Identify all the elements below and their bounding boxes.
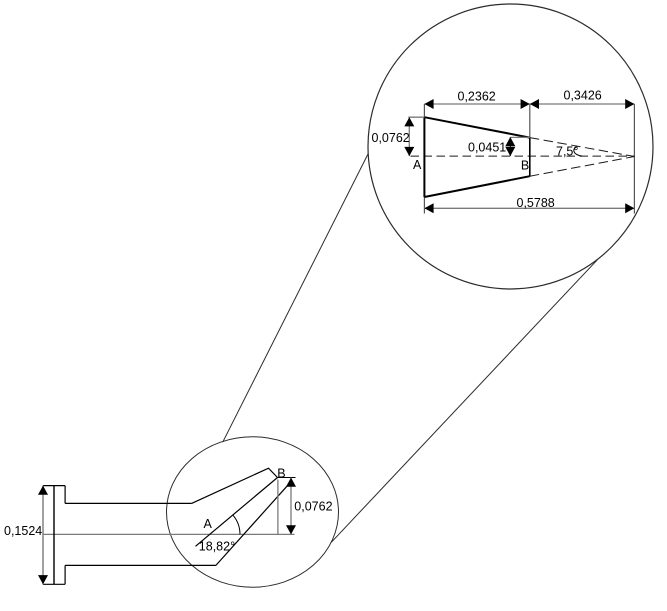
svg-text:B: B [277, 467, 285, 481]
dashed taper bottom projection [530, 157, 635, 177]
svg-text:0,0762: 0,0762 [372, 131, 410, 145]
extension line from B right [278, 477, 296, 479]
horn top flare [192, 468, 278, 503]
dimension line 0,2362 [424, 103, 529, 105]
taper axis line A-B [196, 478, 278, 547]
extension line left x=424.4 [423, 104, 425, 214]
leader line right (small circle to detail circle) [331, 259, 598, 542]
flange bottom edge [43, 583, 65, 585]
small view ellipse [167, 437, 339, 587]
taper left edge [423, 117, 425, 197]
extension line from B down [277, 480, 279, 535]
svg-text:7,5°: 7,5° [556, 145, 578, 159]
svg-text:18,82°: 18,82° [199, 539, 235, 553]
taper right edge [529, 138, 531, 177]
flange top edge [43, 485, 65, 487]
svg-text:0,5788: 0,5788 [517, 196, 555, 210]
dimension line 0,0451 double arrow [509, 137, 511, 156]
taper top edge [424, 117, 529, 137]
extension line mid x=529.8 [529, 104, 531, 138]
dimension line 0,5788 [424, 207, 634, 209]
extension line for 0,0451 [510, 136, 530, 138]
svg-text:B: B [521, 159, 529, 173]
flange right edge upper [64, 486, 66, 504]
flange right edge lower [64, 565, 66, 584]
svg-text:0,0762: 0,0762 [294, 500, 332, 514]
svg-text:0,0451: 0,0451 [468, 141, 506, 155]
angle arc 18,82 [233, 515, 240, 534]
taper lower wall line [216, 482, 291, 566]
centerline of waveguide [43, 533, 295, 535]
waveguide top wall [65, 502, 192, 504]
taper bottom edge [424, 176, 529, 197]
dashed taper top projection [530, 138, 635, 157]
dashed centerline of detail view [411, 155, 635, 157]
waveguide bottom wall [65, 564, 216, 566]
leader line left (small circle to detail circle) [223, 154, 369, 443]
svg-text:0,2362: 0,2362 [458, 89, 496, 103]
dimension line 0,3426 [530, 103, 635, 105]
angle arc 7,5 [574, 147, 583, 157]
svg-text:A: A [204, 517, 213, 531]
dimension line 0,0762 (detail) [408, 117, 410, 156]
flange left edge [53, 486, 55, 585]
dimension line 0,0762 (small) [290, 478, 292, 535]
dimension line 0,1524 [42, 486, 44, 585]
svg-text:A: A [413, 158, 422, 172]
detail view circle (big) [368, 4, 653, 289]
extension line right x=634.4 [633, 104, 635, 214]
svg-text:0,1524: 0,1524 [4, 524, 42, 538]
extension line for 0,0762 top [408, 116, 424, 118]
svg-text:0,3426: 0,3426 [564, 88, 602, 102]
